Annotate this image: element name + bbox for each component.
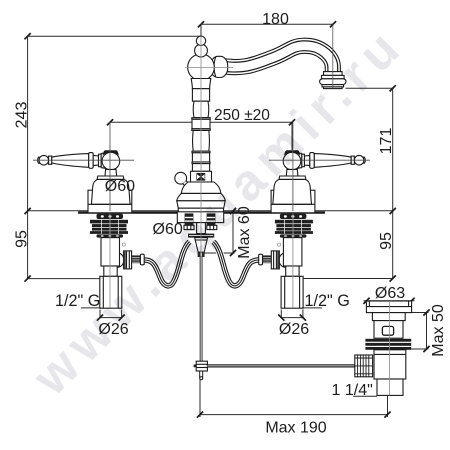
dim 243 line [27, 36, 29, 211]
stud nut right [207, 225, 217, 229]
rod hole [382, 326, 393, 335]
left below-deck valve [81, 214, 190, 321]
column shaft segments [192, 89, 210, 172]
drain washers [365, 339, 411, 350]
watermark www [24, 17, 413, 403]
dim Max60 line [232, 211, 234, 253]
right handle assembly (mirror) [269, 122, 370, 213]
dim Max50 line [426, 313, 428, 350]
svg-text:180: 180 [262, 11, 289, 28]
horizontal rod [207, 364, 358, 367]
nipple [198, 252, 205, 257]
drain neck [372, 313, 405, 321]
mounting bar [188, 234, 214, 238]
pop-up lever ball [175, 172, 187, 184]
escutcheon block [191, 171, 212, 182]
cone [195, 238, 208, 253]
rod tip [200, 371, 203, 377]
svg-text:Ø63: Ø63 [375, 285, 405, 302]
dim 95 left line [27, 211, 29, 279]
drain lower body [374, 350, 406, 379]
svg-text:Max 190: Max 190 [265, 419, 326, 436]
dim Max190 line [200, 414, 388, 416]
column centerline [200, 36, 202, 256]
rod connector block [196, 361, 207, 371]
svg-text:1 1/4": 1 1/4" [332, 382, 373, 399]
column big ball [188, 54, 215, 81]
center pipe [197, 223, 206, 234]
drain flange [366, 301, 411, 313]
left handle assembly [33, 122, 134, 213]
dim 171 line [392, 88, 394, 211]
dim Max60 bottom extension [203, 252, 235, 254]
spout joint connector [211, 56, 228, 77]
center mounting plate [177, 212, 223, 223]
column medium ball [195, 44, 208, 57]
svg-text:95: 95 [378, 232, 395, 250]
spout outlet bell [320, 72, 346, 89]
svg-text:243: 243 [14, 102, 31, 129]
knurled nut [355, 355, 373, 377]
deck thick line [78, 211, 325, 213]
ball horizontal centerline [185, 67, 233, 69]
svg-text:Ø26: Ø26 [279, 321, 309, 338]
dim 180 line [201, 23, 333, 25]
stud nut left [184, 225, 194, 229]
spout arm [220, 46, 333, 73]
threaded stud right [207, 213, 216, 225]
dim 250 right extension [291, 122, 293, 150]
center bell skirt [177, 201, 225, 208]
leader 1 1/4 [353, 395, 377, 397]
threaded stud left [185, 213, 194, 225]
center bell base [178, 208, 223, 212]
check square knob [196, 173, 205, 181]
dim 250 line [110, 121, 292, 123]
dim 95 left bottom extension [28, 278, 100, 280]
center bell tier1 [181, 182, 221, 193]
dim 95 right line [392, 211, 394, 279]
deck thin line [28, 210, 393, 212]
dim O63 line [364, 300, 415, 302]
center bell tier2 [177, 193, 225, 200]
right below-deck valve (mirror) [213, 214, 322, 321]
spout outlet centerline [332, 24, 334, 88]
column neck [191, 79, 211, 89]
svg-text:1/2" G: 1/2" G [305, 292, 350, 310]
svg-text:95: 95 [14, 230, 31, 248]
dim 180 left extension [200, 24, 202, 36]
svg-text:Max 50: Max 50 [430, 304, 447, 357]
drain body [374, 321, 403, 339]
pop-up rod [200, 257, 203, 361]
dim 243 top extension [28, 35, 201, 37]
svg-text:Ø60: Ø60 [105, 178, 135, 195]
column small ball [196, 36, 205, 45]
rod stub left of block [194, 365, 197, 368]
dim 171 top extension [346, 87, 393, 89]
pop-up lever stem [185, 182, 192, 190]
svg-text:250 ±20: 250 ±20 [214, 107, 270, 124]
drain centerline [389, 301, 391, 395]
drain tailpiece [377, 379, 403, 395]
dim 95 right bottom extension [302, 278, 393, 280]
svg-text:171: 171 [378, 128, 395, 155]
